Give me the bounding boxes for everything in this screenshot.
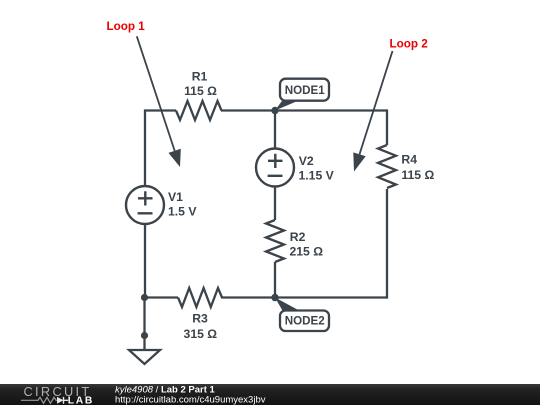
- resistor R1: [176, 70, 222, 121]
- wire middle rail mid: [274, 187, 276, 221]
- resistor R4: [378, 145, 434, 188]
- svg-text:315 Ω: 315 Ω: [184, 327, 218, 341]
- svg-text:R2: R2: [290, 230, 306, 244]
- svg-text:NODE1: NODE1: [285, 84, 325, 97]
- resistor R2: [266, 220, 323, 262]
- resistor R3: [178, 288, 222, 341]
- ground: [129, 350, 160, 364]
- svg-text:Loop 2: Loop 2: [390, 37, 429, 50]
- footer bar: [0, 384, 540, 405]
- svg-text:http://circuitlab.com/c4u9umye: http://circuitlab.com/c4u9umyex3jbv: [115, 395, 266, 405]
- svg-text:V2: V2: [299, 154, 314, 168]
- svg-text:R1: R1: [192, 70, 208, 84]
- svg-text:R4: R4: [401, 152, 417, 166]
- wire top-right segment: [221, 109, 387, 111]
- svg-text:NODE2: NODE2: [285, 315, 325, 328]
- wire left rail upper: [144, 109, 146, 186]
- wire middle rail upper: [274, 111, 276, 149]
- wire right rail upper: [386, 109, 388, 145]
- svg-text:115 Ω: 115 Ω: [401, 168, 434, 182]
- node NODE2 junction: [271, 294, 278, 301]
- wire bottom-right segment: [221, 296, 387, 298]
- svg-text:215 Ω: 215 Ω: [290, 245, 324, 259]
- voltage source V2: [256, 149, 335, 187]
- svg-text:V1: V1: [168, 190, 183, 204]
- wire top-left segment: [145, 109, 176, 111]
- svg-text:1.5 V: 1.5 V: [168, 205, 197, 219]
- svg-text:R3: R3: [192, 311, 208, 325]
- circuitlab logo: [21, 384, 94, 405]
- junction bottom-left: [141, 294, 148, 301]
- wire bottom-left segment: [144, 296, 178, 298]
- wire middle rail lower: [274, 262, 276, 298]
- loop 1 arrow: [137, 36, 181, 167]
- svg-text:Loop 1: Loop 1: [107, 20, 146, 33]
- wire ground stub: [143, 298, 145, 357]
- node NODE1 flag: [275, 79, 329, 111]
- voltage source V1: [126, 186, 197, 224]
- svg-text:LAB: LAB: [68, 396, 94, 405]
- loop 2 arrow: [353, 51, 392, 172]
- junction ground: [141, 332, 148, 339]
- svg-text:115 Ω: 115 Ω: [184, 84, 217, 98]
- wire right rail lower: [386, 189, 388, 299]
- node NODE2 flag: [275, 298, 329, 332]
- node NODE1 junction: [271, 107, 278, 114]
- wire left rail lower: [144, 224, 146, 298]
- svg-text:1.15 V: 1.15 V: [299, 168, 335, 182]
